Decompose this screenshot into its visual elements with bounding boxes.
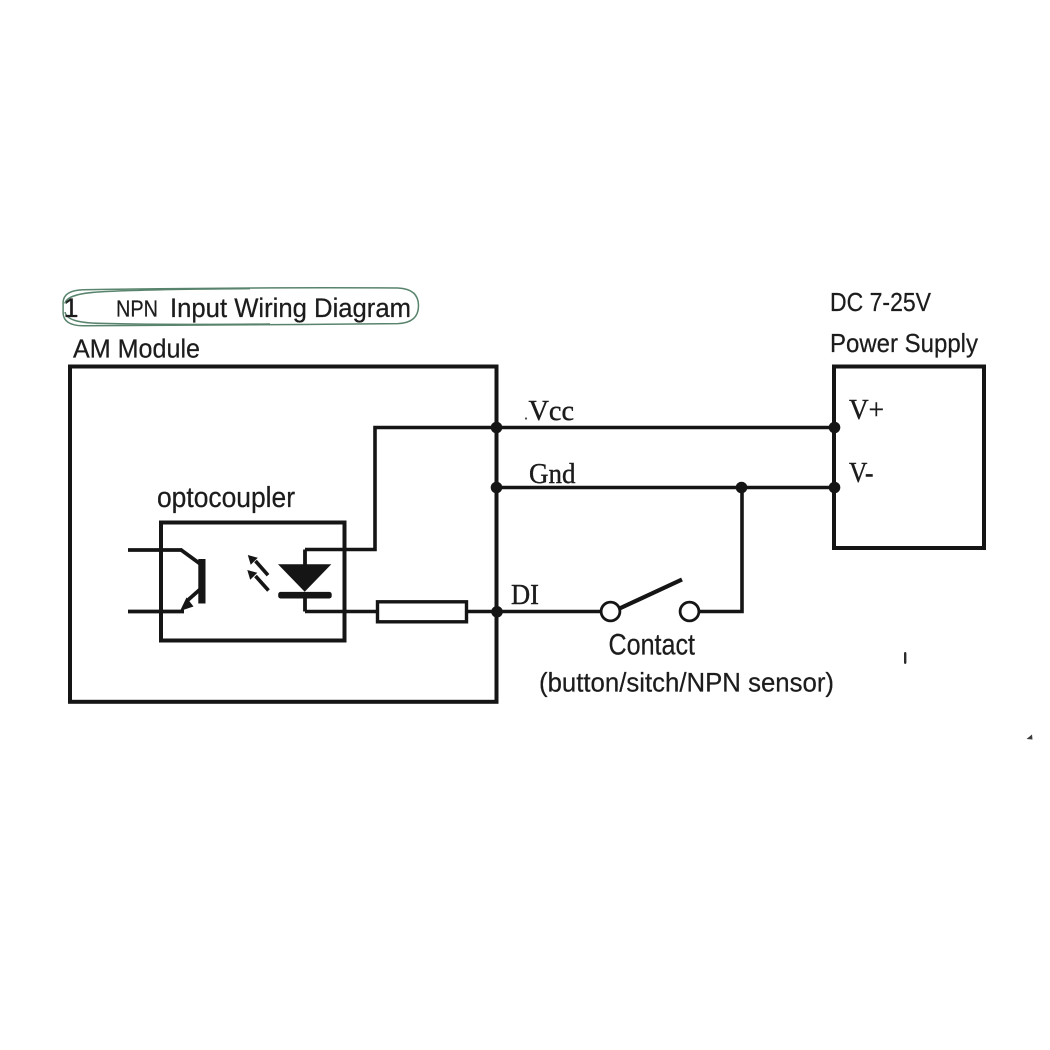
optocoupler U1 box (161, 523, 345, 641)
emitter arrowhead (180, 598, 194, 612)
svg-text:optocoupler: optocoupler (157, 482, 295, 514)
light arrow 2 (247, 570, 268, 591)
junction node Gnd/branch (736, 482, 748, 494)
stray corner mark (1027, 735, 1033, 740)
junction node V+ (829, 422, 841, 434)
wire switch to Gnd branch (699, 488, 742, 612)
speck before Vcc (525, 417, 527, 419)
power supply box (834, 367, 984, 549)
AM Module box (70, 367, 497, 702)
LED cathode lead to resistor (305, 610, 377, 614)
svg-text:Contact: Contact (609, 629, 696, 662)
stray tick mark (904, 652, 906, 664)
junction node DI/AM (491, 606, 503, 618)
title ellipse (63, 288, 418, 326)
title text (64, 293, 412, 323)
svg-text:DC 7-25V: DC 7-25V (830, 287, 932, 317)
svg-text:Power Supply: Power Supply (830, 328, 978, 358)
junction node Vcc/AM (491, 422, 503, 434)
svg-text:Gnd: Gnd (529, 458, 576, 490)
svg-text:(button/sitch/NPN sensor): (button/sitch/NPN sensor) (539, 668, 834, 698)
contact switch S1 (601, 602, 620, 621)
resistor R1 (378, 602, 467, 622)
wire Vcc (305, 428, 834, 550)
LED D1 (303, 550, 307, 612)
svg-text:1: 1 (64, 293, 79, 323)
wire resistor to DI node (467, 610, 602, 614)
light arrow 1 (248, 555, 268, 575)
svg-text:AM Module: AM Module (73, 336, 200, 364)
phototransistor Q1 (128, 550, 201, 612)
junction node Gnd/AM (491, 482, 503, 494)
svg-text:DI: DI (511, 579, 539, 611)
svg-text:V+: V+ (849, 394, 884, 426)
svg-text:Vcc: Vcc (529, 395, 575, 427)
junction node V- (829, 482, 841, 494)
svg-text:V-: V- (849, 457, 874, 489)
svg-text:Input Wiring Diagram: Input Wiring Diagram (170, 293, 411, 323)
svg-text:NPN: NPN (116, 296, 158, 322)
wire Gnd (497, 486, 835, 490)
